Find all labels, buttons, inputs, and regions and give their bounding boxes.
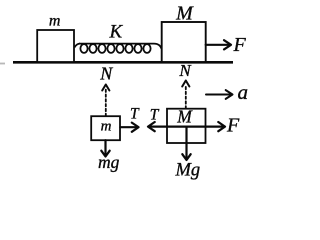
svg-text:N: N	[99, 64, 113, 84]
svg-text:F: F	[233, 34, 247, 56]
svg-text:a: a	[238, 80, 249, 104]
svg-text:M: M	[175, 2, 194, 24]
svg-text:m: m	[101, 119, 112, 135]
svg-text:K: K	[109, 22, 124, 43]
svg-text:T: T	[130, 106, 140, 123]
svg-text:Mg: Mg	[175, 161, 201, 181]
svg-text:F: F	[226, 115, 240, 137]
svg-text:T: T	[150, 107, 160, 124]
svg-text:mg: mg	[98, 152, 120, 172]
svg-text:N: N	[178, 61, 192, 80]
svg-text:M: M	[176, 107, 193, 127]
svg-text:m: m	[49, 13, 61, 30]
